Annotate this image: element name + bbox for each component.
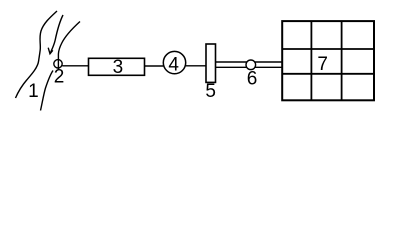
svg-text:3: 3 [113,57,124,78]
svg-text:5: 5 [205,81,216,102]
svg-text:7: 7 [317,54,328,75]
svg-text:1: 1 [28,81,39,102]
svg-text:2: 2 [54,66,65,87]
svg-text:4: 4 [168,54,179,75]
svg-text:6: 6 [247,68,258,89]
